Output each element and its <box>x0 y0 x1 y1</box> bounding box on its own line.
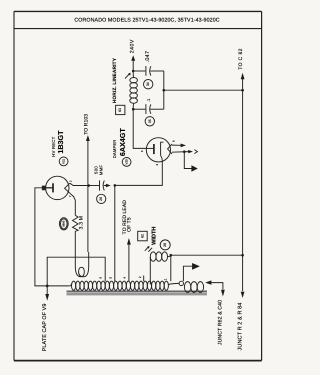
svg-text:DAMPER: DAMPER <box>112 140 117 159</box>
circled 35 <box>145 117 154 126</box>
label 240V <box>129 39 135 53</box>
label TO C 82 <box>238 48 244 70</box>
wire linearity right branch <box>163 71 165 109</box>
oval 5600 <box>59 218 68 230</box>
yoke winding A <box>169 281 204 292</box>
circled 34 <box>144 80 153 89</box>
wire yoke A to junct R62 C40 <box>211 283 224 297</box>
label JUNCT R 2 &amp; R 84 <box>238 303 244 351</box>
svg-text:35: 35 <box>148 119 152 123</box>
label .1 <box>146 98 151 102</box>
wire heater branch down with arrow <box>184 152 198 172</box>
tap 2 stub <box>143 276 145 282</box>
svg-text:CORONADO MODELS 25TV1-43-9020C: CORONADO MODELS 25TV1-43-9020C, 35TV1-43… <box>74 18 219 24</box>
svg-text:26: 26 <box>99 197 103 201</box>
resistor 3.3M <box>73 215 79 252</box>
arrowhead A <box>205 280 211 284</box>
node linearity top <box>132 70 135 73</box>
svg-text:62: 62 <box>140 234 144 238</box>
wire yoke bent arrow <box>183 263 199 281</box>
wire tap6 line <box>47 257 105 286</box>
svg-text:JUNCT R 2 & R 84: JUNCT R 2 & R 84 <box>238 303 244 351</box>
box 62 <box>138 231 148 241</box>
coil L63 horiz linearity <box>130 71 138 109</box>
wire 240V feed <box>131 55 135 71</box>
circled 26 <box>97 194 106 203</box>
node R103 C26 junction <box>87 184 90 187</box>
wire 1B3GT plate line to flyback <box>35 188 69 286</box>
transformer filament winding <box>75 252 88 277</box>
svg-text:V21: V21 <box>62 158 66 164</box>
capacitor C34 .047 <box>133 66 164 76</box>
wire damper heater top arrow <box>172 144 186 148</box>
wire linearity bottom to damper plate <box>133 109 146 148</box>
wire damper heater bottom <box>172 150 198 154</box>
label TO R103 <box>84 114 90 135</box>
tap digits 6 5 4 2 1 <box>98 276 167 280</box>
label HORIZ. LINEARITY <box>112 57 118 103</box>
wire R103 line <box>86 135 90 252</box>
svg-text:PLATE CAP OF V9: PLATE CAP OF V9 <box>42 304 48 352</box>
border frame <box>14 11 262 360</box>
circled V20 <box>122 158 131 167</box>
svg-text:MMF: MMF <box>98 165 103 176</box>
svg-text:63: 63 <box>118 108 122 112</box>
svg-text:HORIZ. LINEARITY: HORIZ. LINEARITY <box>112 57 118 103</box>
node on C82 line <box>241 89 244 92</box>
wire tap4 arrow to red lead of T5 <box>127 238 131 281</box>
svg-text:28: 28 <box>163 243 167 247</box>
svg-text:OF T5: OF T5 <box>126 217 132 232</box>
node linearity bottom <box>132 108 135 111</box>
label TO RED LEAD OF T5 <box>122 200 132 235</box>
circled 28 <box>160 240 170 250</box>
svg-text:JUNCT R62 & C40: JUNCT R62 & C40 <box>217 300 223 345</box>
node C34 C35 midpoint <box>163 89 166 92</box>
wire width to R2R84 line <box>171 254 243 256</box>
svg-text:V20: V20 <box>125 159 129 165</box>
svg-text:240V: 240V <box>129 39 135 53</box>
coil L62 width <box>150 252 171 285</box>
svg-text:TO C 82: TO C 82 <box>238 48 244 70</box>
wire arrow to plate cap of V9 <box>45 286 49 301</box>
slug arrow of L63 <box>125 73 131 79</box>
node heater junction <box>183 150 186 153</box>
label DAMPER 6AX4GT <box>112 128 127 159</box>
label 500 MMF <box>94 165 104 176</box>
tube V20 damper 6AX4GT <box>146 138 172 162</box>
capacitor C35 .1 <box>133 104 164 114</box>
svg-text:5600: 5600 <box>62 220 65 226</box>
tube V21 HV rect 1B3GT <box>42 176 88 215</box>
transformer core <box>67 291 208 296</box>
label JUNCT R62 &amp; C40 <box>217 300 223 345</box>
wire midpoint to C82 line <box>164 89 243 91</box>
box 63 <box>116 105 125 114</box>
circled V21 <box>59 157 68 166</box>
svg-text:3.3 M: 3.3 M <box>79 216 85 230</box>
svg-text:.047: .047 <box>145 51 151 63</box>
svg-text:1B3GT: 1B3GT <box>56 130 65 154</box>
node cathode junction <box>114 184 117 187</box>
wire damper cathode to tap 5 <box>115 162 163 282</box>
node plate cap junction <box>46 285 49 288</box>
label 3.3 M <box>79 216 85 230</box>
label .047 <box>145 51 151 63</box>
title text <box>74 18 219 24</box>
label HV RECT 1B3GT <box>51 130 65 157</box>
wire C82 R2R84 vertical <box>241 73 245 298</box>
transformer HV winding <box>69 281 168 290</box>
label WIDTH <box>151 227 157 245</box>
slug arrows of L62 <box>145 246 152 252</box>
svg-text:6AX4GT: 6AX4GT <box>118 128 127 157</box>
svg-text:34: 34 <box>146 82 150 86</box>
label PLATE CAP OF V9 <box>42 304 48 352</box>
svg-text:TO R103: TO R103 <box>84 114 90 135</box>
capacitor C26 500MMF <box>89 180 111 190</box>
node width top right <box>170 254 173 257</box>
svg-text:WIDTH: WIDTH <box>151 227 157 245</box>
node on R2R84 line <box>241 254 244 257</box>
